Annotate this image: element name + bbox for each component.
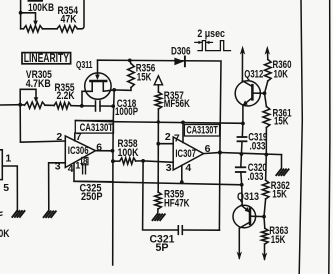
wire: IC306 pin3 stub to ground	[49, 163, 66, 212]
svg-text:15K: 15K	[272, 188, 287, 200]
wire: IC306 pin4 to V- rail	[74, 164, 113, 182]
label box CA3130T (IC307)	[184, 125, 219, 137]
ground (IC306 pin3)	[44, 211, 49, 217]
wire: long vertical net (C318 / IC306 out)	[113, 90, 115, 265]
capacitor C325 250P (comp)	[80, 164, 103, 204]
svg-text:1: 1	[5, 153, 11, 164]
wire: IC307 pin2 input	[158, 143, 173, 145]
wire: IC306 pin2 input	[20, 105, 65, 143]
node: C318 left	[80, 104, 84, 108]
power arrow (R357 supply)	[154, 76, 162, 85]
svg-text:.033: .033	[250, 141, 266, 153]
svg-text:HF47K: HF47K	[164, 197, 190, 209]
node: C319/C320 midpoint	[240, 152, 244, 156]
node: Q312 base	[263, 91, 267, 95]
svg-text:Q311: Q311	[76, 60, 93, 71]
svg-text:15K: 15K	[274, 116, 289, 128]
resistor R356 15K	[114, 59, 155, 91]
resistor R363 15K	[262, 217, 289, 246]
svg-text:6: 6	[205, 144, 211, 155]
wire: right border line B	[329, 0, 330, 274]
node: IC307 output / D306 net	[218, 151, 222, 155]
svg-text:15K: 15K	[137, 71, 152, 83]
node: IC307 pin2 / R357	[156, 142, 160, 146]
wire: vertical net D306/IC307out/C321	[218, 153, 221, 231]
resistor R358 100K	[113, 138, 143, 164]
wire: top-left loop right edge	[78, 0, 85, 29]
op-amp U IC306	[55, 132, 96, 175]
svg-text:2: 2	[165, 132, 171, 143]
wire: IC307 pin4 to V- rail	[181, 165, 183, 182]
LINEARITY label box	[22, 51, 71, 65]
node: C320 / V- rail / Q313 emitter	[240, 183, 244, 187]
transistor Q311 (FET)	[76, 60, 114, 106]
wire: Q311 drain to D306 net, corner to IC307 output	[98, 60, 222, 152]
wire: IC307 pin3 input	[143, 161, 173, 162]
connector (left edge)	[0, 150, 11, 194]
svg-text:4: 4	[68, 164, 74, 175]
svg-text:5: 5	[3, 183, 9, 194]
resistor R359 HF47K	[155, 144, 190, 215]
svg-text:100K: 100K	[118, 147, 139, 159]
svg-text:250P: 250P	[81, 191, 103, 203]
wire	[71, 105, 82, 107]
left edge mark	[0, 212, 2, 216]
svg-text:15K: 15K	[271, 234, 286, 246]
wire	[43, 28, 58, 30]
ground (output node)	[276, 169, 281, 175]
resistor R357 MF56K	[155, 85, 190, 144]
ground (R359)	[153, 214, 158, 220]
power arrow (Q312 collector)	[240, 46, 245, 55]
wire: left input	[0, 104, 20, 106]
svg-text:LINEARITY: LINEARITY	[24, 51, 69, 65]
resistor R355 2.2K	[54, 82, 75, 109]
svg-text:CA3130T: CA3130T	[186, 125, 218, 137]
resistor R362 15K	[262, 155, 290, 217]
node: R358 right / pin3 / C321	[141, 159, 145, 163]
wire: V+ rail	[75, 121, 243, 124]
capacitor C319 .033	[238, 123, 268, 154]
node: rail / IC307 pin7	[181, 121, 185, 125]
svg-text:1000P: 1000P	[115, 106, 138, 118]
transistor Q312	[235, 50, 264, 106]
resistor R360 10K	[265, 59, 292, 93]
svg-text:1: 1	[75, 161, 80, 171]
svg-text:7: 7	[174, 133, 180, 144]
svg-text:IC307: IC307	[175, 148, 196, 160]
wire: V- rail	[74, 181, 242, 185]
svg-text:MF56K: MF56K	[164, 98, 190, 110]
potentiometer VR (100KB)	[19, 2, 54, 32]
svg-text:0K: 0K	[0, 228, 10, 240]
wire: top-left loop left edge	[20, 0, 22, 29]
svg-text:2.2K: 2.2K	[57, 90, 75, 102]
svg-text:CA3130T: CA3130T	[80, 122, 114, 134]
node: R358 left	[111, 159, 115, 163]
wire: IC307 output	[204, 153, 220, 154]
wire	[45, 104, 54, 106]
node: R362/R363/Q313 base	[262, 215, 266, 219]
svg-text:47K: 47K	[61, 13, 77, 25]
svg-text:.033: .033	[248, 171, 264, 183]
op-amp U IC307	[165, 122, 204, 174]
svg-text:3: 3	[166, 163, 172, 174]
svg-text:2 μsec: 2 μsec	[197, 28, 225, 40]
svg-text:4.7KB: 4.7KB	[26, 78, 51, 90]
svg-text:6: 6	[96, 143, 102, 154]
svg-text:D306: D306	[171, 45, 191, 57]
svg-text:Q313: Q313	[237, 191, 259, 203]
diode D306	[171, 45, 191, 66]
svg-text:Q312: Q312	[244, 68, 263, 80]
svg-text:10K: 10K	[274, 68, 289, 80]
node: IC307 pin4 / V- rail	[180, 180, 184, 184]
node: C318 right	[111, 104, 115, 108]
wire+arrow: Q313 collector out	[238, 228, 240, 258]
svg-text:4: 4	[185, 163, 191, 174]
resistor R361 15K	[263, 93, 292, 154]
wire: IC306 output	[96, 150, 113, 152]
transistor Q313	[233, 185, 264, 228]
potentiometer VR305 4.7KB	[18, 69, 52, 108]
power arrow (R360 supply)	[266, 50, 268, 59]
wire: right border line A	[299, 0, 302, 274]
node: IC306 output	[111, 149, 115, 153]
node: rail / R357	[157, 120, 160, 123]
pulse waveform annotation 2 usec	[195, 28, 231, 51]
resistor R354 47K	[57, 5, 79, 32]
wire: stub down to ground	[281, 155, 283, 169]
wire+arrow: R363 bottom out	[264, 244, 266, 259]
node: R361/R362 junction	[264, 153, 268, 157]
wire: connector pin to ground	[2, 166, 17, 211]
label remnant (cut)	[28, 0, 44, 2]
svg-text:7: 7	[76, 132, 82, 143]
capacitor C320 .033	[236, 154, 267, 185]
svg-text:100KB: 100KB	[28, 2, 54, 14]
wire: Q312 emitter down	[242, 105, 244, 123]
wire: output node to R361/R362 and ground stub	[220, 153, 282, 155]
node: Q312 emitter / V+ rail	[241, 122, 245, 126]
node: Q311 drain junction	[112, 88, 116, 92]
ground (connector)	[12, 211, 17, 217]
label box CA3130T (IC306)	[75, 121, 113, 134]
capacitor C321 5P	[143, 161, 220, 254]
capacitor C318 1000P	[82, 98, 138, 118]
svg-text:5P: 5P	[156, 242, 169, 254]
